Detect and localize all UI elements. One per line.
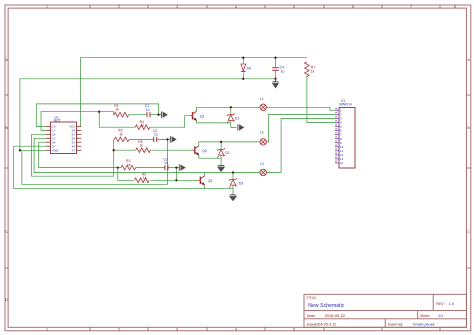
wire D2 branch vertical [220,142,222,166]
svg-text:REV: REV [436,302,444,306]
transistor Q1 [190,111,205,121]
wire D3 branch vertical [232,173,234,195]
svg-text:8: 8 [454,5,456,9]
wire C1 right plate to node and stub [150,114,161,116]
diode D2 [217,148,230,158]
diode D3 [229,178,243,188]
wire R6 branch from node [118,168,134,181]
svg-text:NOT: NOT [54,119,61,123]
svg-text:D4: D4 [247,66,251,70]
svg-text:Q3: Q3 [208,179,213,183]
capacitor C1 [145,104,150,117]
wire C3 node riser down to R6 row [175,168,177,181]
svg-text:1k: 1k [127,163,131,167]
wire R3 output to C3 and node [136,167,179,169]
wire R2 row from riser to C2 [114,138,170,140]
svg-text:D1: D1 [235,116,239,120]
wire 1A pin route over IC to C1 node [36,104,158,127]
svg-text:MINIV14: MINIV14 [339,103,352,107]
svg-text:TITLE:: TITLE: [307,296,317,300]
ground below D2 [217,166,225,172]
ground below C4 [272,79,279,89]
ground right of C1 node [161,112,167,118]
wire 3Y pin route to Q3 emitter rail [14,146,233,189]
svg-text:L3: L3 [260,162,264,166]
svg-text:D2: D2 [225,151,229,155]
wire R7 riser down to connector pin 4 [307,76,335,123]
svg-text:1u: 1u [281,69,285,73]
wire Q3 emitter vertical [204,185,206,189]
wire Q3 collector joins L3 rail, lamp to connector pin 3 [205,118,335,176]
frame row letters left [5,58,8,302]
resistor R3 [121,159,136,170]
svg-text:1: 1 [46,327,48,331]
svg-text:1k: 1k [115,108,119,112]
resistor R4 [135,120,150,130]
svg-text:1u: 1u [146,108,150,112]
transistor Q2 [192,146,207,156]
svg-text:2018-05-22: 2018-05-22 [325,313,346,318]
svg-text:1k: 1k [311,69,315,73]
svg-text:Sheet:: Sheet: [420,314,430,318]
frame row ticks right [466,95,470,268]
svg-text:1u: 1u [154,133,158,137]
resistor R1 [114,104,129,117]
frame row letters right [467,58,470,234]
wire R4 output to Q1 base [150,116,190,128]
wire GND pin down route to C2 node riser [22,139,168,184]
svg-text:7: 7 [410,5,412,9]
op-amp U1 hex inverter box [46,115,82,153]
svg-text:4: 4 [235,327,237,331]
wire C4 vertical between rails [275,58,277,79]
frame column numbers top [46,5,456,9]
svg-text:Drawn By:: Drawn By: [388,323,404,327]
wire D1 branch vertical [231,107,237,127]
svg-text:1.0: 1.0 [449,302,454,306]
wire R5 branch row [114,149,192,151]
svg-text:4Y: 4Y [72,148,76,152]
wire R6 output to Q3 base [151,179,198,181]
wire R4 branch from node A1 [99,112,135,128]
svg-text:C: C [5,230,8,234]
capacitor C3 [163,158,168,171]
svg-text:Date:: Date: [307,314,316,318]
title block [304,294,466,327]
frame column ticks top [90,5,440,8]
wire R1 output to C1 [129,114,147,116]
junction dots [19,57,277,182]
svg-text:1: 1 [46,5,48,9]
svg-text:1u: 1u [164,161,168,165]
title block texts [307,296,454,327]
svg-text:3: 3 [176,327,178,331]
svg-text:1k: 1k [119,132,123,136]
svg-text:EasyEDA V5.4.12: EasyEDA V5.4.12 [307,323,336,327]
svg-text:2: 2 [118,327,120,331]
ground right of D1 [238,124,244,130]
wire Q1 collector to lamp L1 rail and connector pin 1 [197,107,335,111]
wire Q1 emitter to D1 bottom [197,120,231,123]
wire D4 vertical between rails [242,58,244,79]
ground below D3 [229,195,237,201]
svg-text:L1: L1 [260,97,264,101]
wire 1Y pin route up to R1 row [41,112,114,131]
lamp L2 [260,131,267,146]
diode D1 [227,113,240,123]
svg-text:1k: 1k [141,123,145,127]
svg-text:1k: 1k [139,144,143,148]
svg-text:C: C [467,230,470,234]
lamp L3 [260,162,267,176]
wire GND top rail from U1 GND pin up and right to C4 [20,79,276,151]
capacitor C4 [272,66,284,74]
resistor R2 [114,129,129,142]
connector X1 header 14 pin [335,99,355,168]
transistor Q3 [198,176,213,185]
svg-text:brown.penek: brown.penek [413,323,434,327]
wire Q2 collector to lamp L2 rail riser and connector pin 2 [199,114,335,145]
svg-text:5: 5 [293,327,295,331]
svg-text:GND: GND [52,148,58,152]
svg-text:5: 5 [293,5,295,9]
svg-text:D3: D3 [239,181,243,185]
svg-text:3: 3 [176,5,178,9]
resistor R5 [136,140,151,153]
lamp L1 [260,97,267,111]
frame column numbers bottom [46,327,295,331]
svg-text:D: D [5,298,8,302]
ground right of C3 node [179,164,185,170]
svg-text:1k: 1k [143,176,147,180]
svg-text:Q2: Q2 [202,149,207,153]
svg-text:New Schematic: New Schematic [308,303,344,309]
svg-text:2: 2 [118,5,120,9]
svg-text:4: 4 [235,5,237,9]
wire VCC net: U1 VCC pin riser to top rail [80,58,307,127]
resistor R6 [135,172,150,182]
frame row ticks left [5,95,8,268]
svg-text:1/1: 1/1 [438,314,443,318]
diode D4 [241,64,251,71]
wire Q2 emitter to D2 stem [199,155,221,158]
svg-text:6: 6 [352,5,354,9]
wire R3 input row from 3A route [39,142,121,167]
frame column ticks bottom [90,327,440,331]
wire 2A pin route to R2 row riser [32,134,114,176]
svg-text:L2: L2 [260,131,264,135]
capacitor C2 [153,129,158,142]
svg-text:Q1: Q1 [200,114,205,118]
svg-text:14: 14 [340,161,344,165]
resistor R7 [305,62,316,77]
ground right of C2 node [170,136,176,142]
wire 2Y pin route to lamp L3 rail [34,138,205,172]
